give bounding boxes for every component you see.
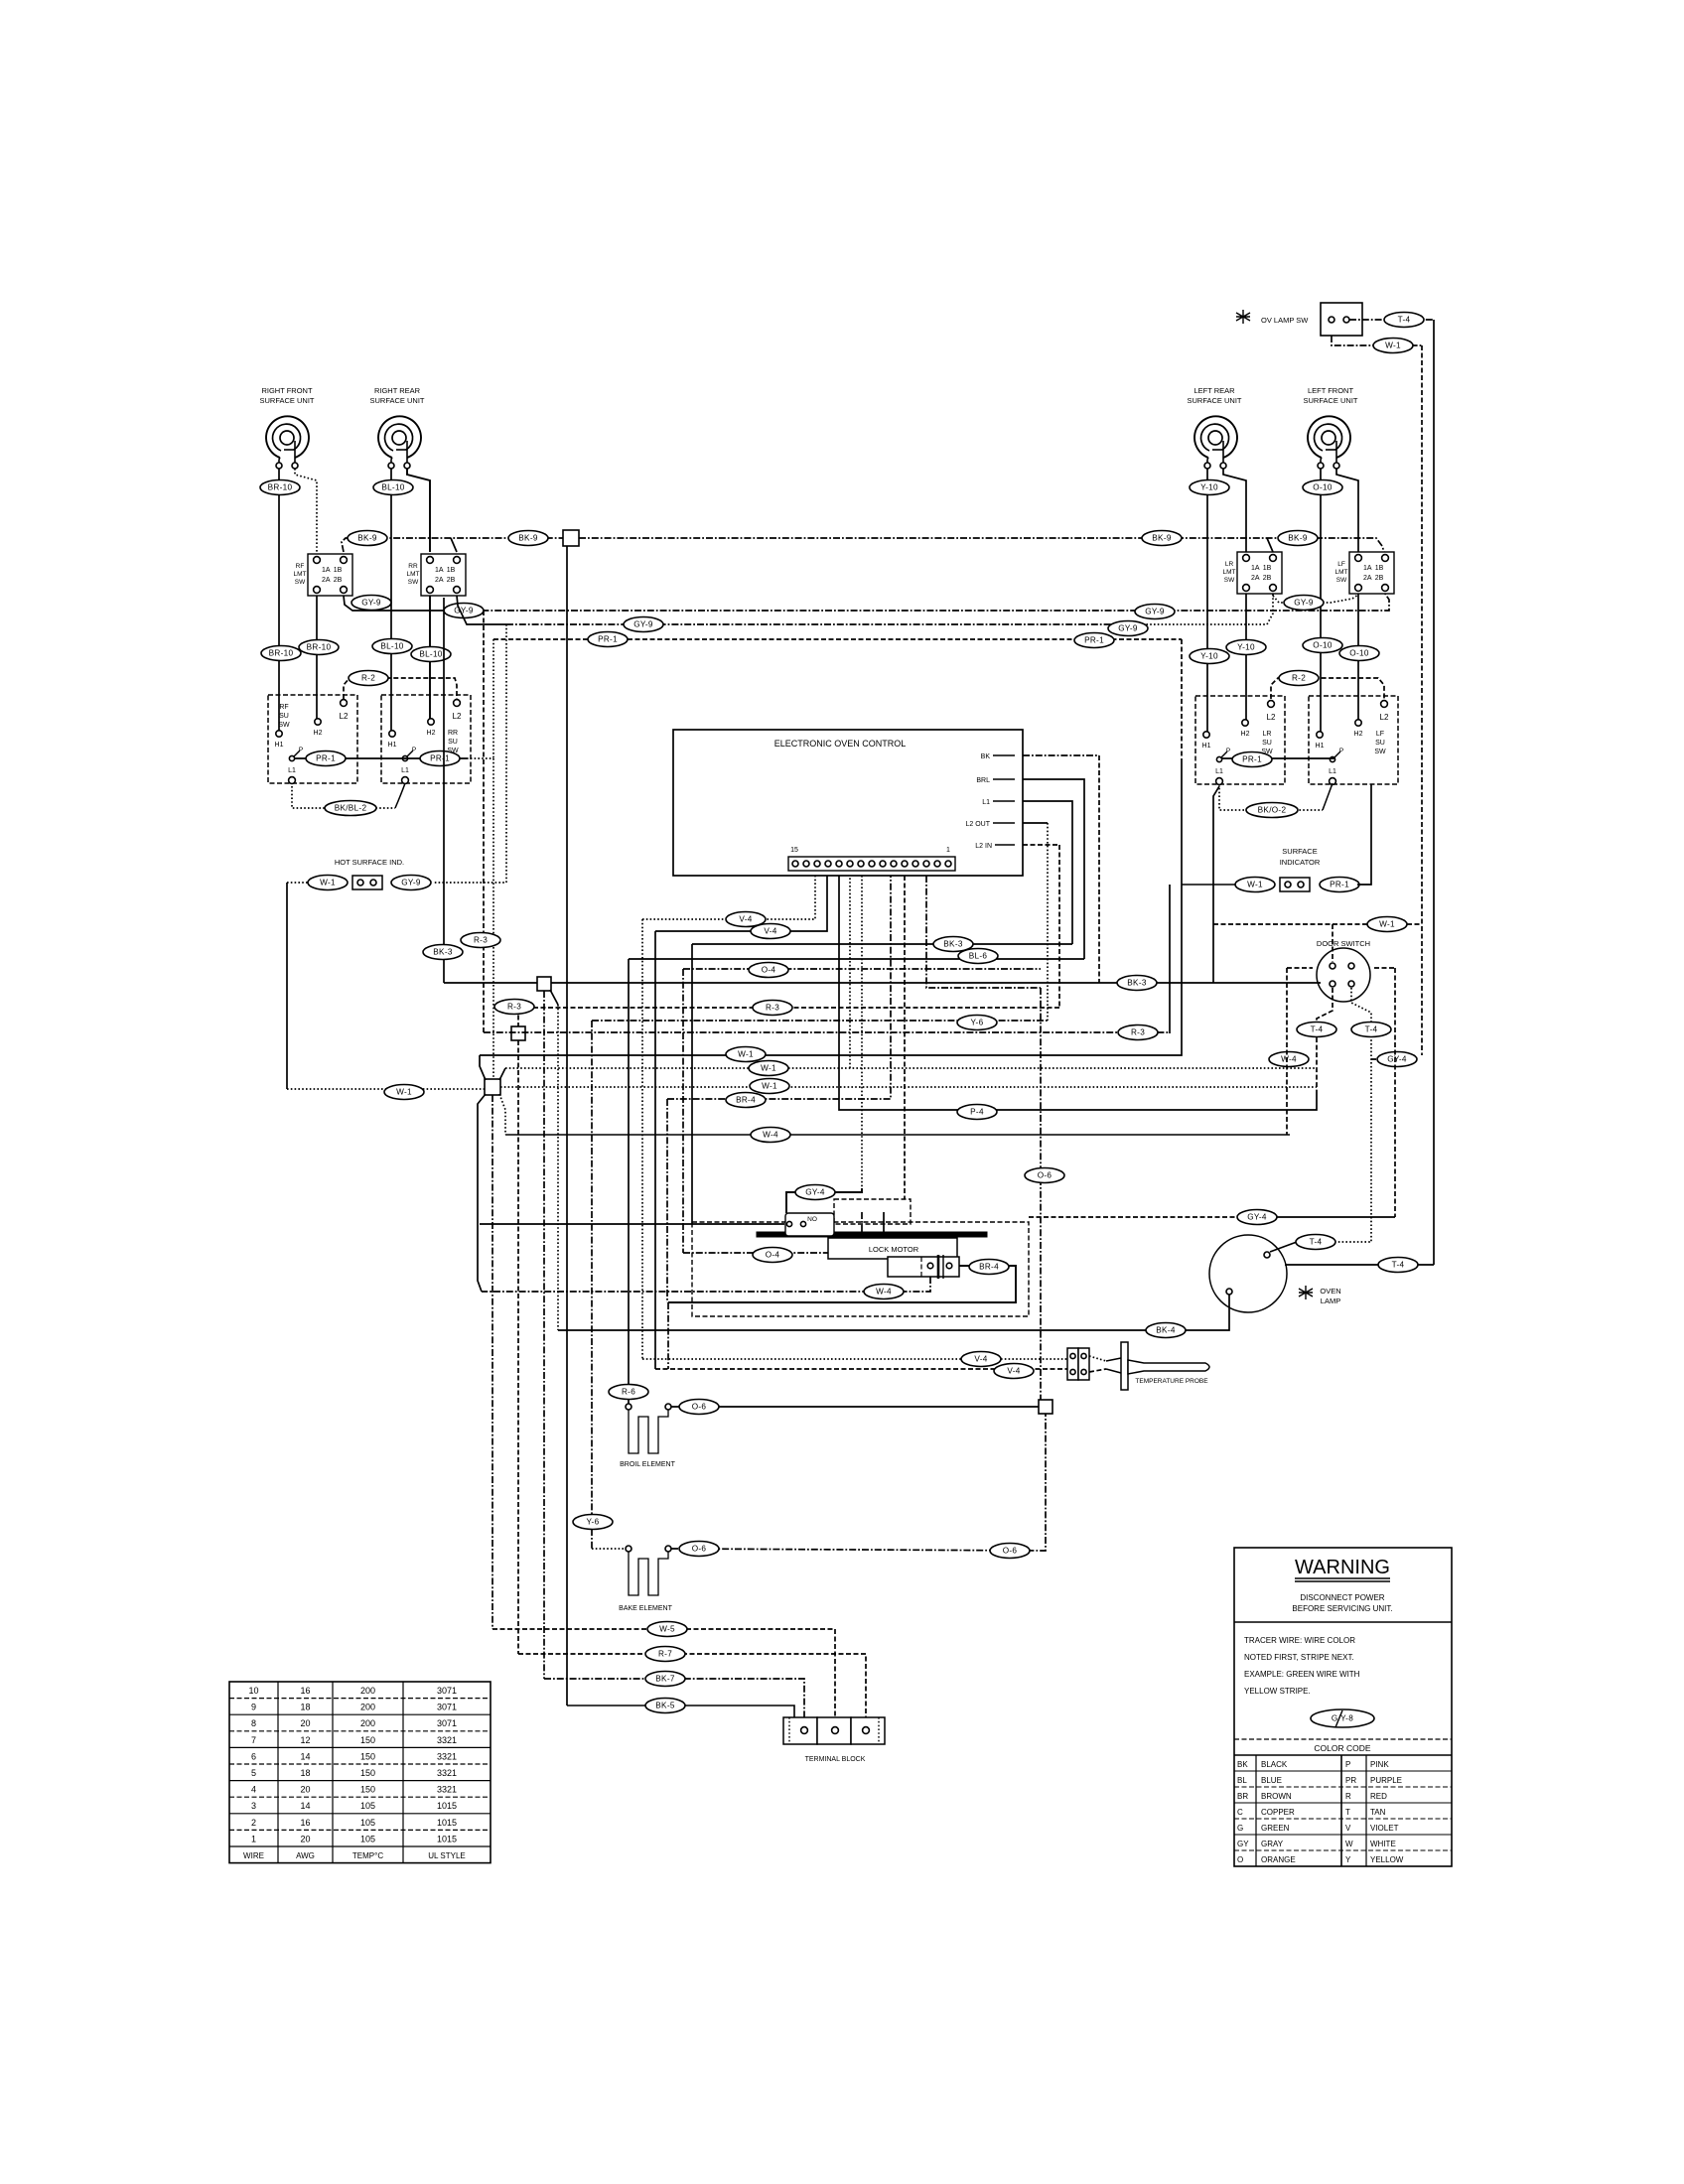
svg-text:O-10: O-10 [1349, 649, 1369, 658]
svg-text:YELLOW STRIPE.: YELLOW STRIPE. [1244, 1687, 1311, 1696]
label oval BK-3 (left) [423, 945, 463, 960]
wire R-3 run y=1015 [518, 1007, 1059, 1009]
svg-text:2B: 2B [334, 577, 343, 584]
svg-text:W-1: W-1 [762, 1082, 777, 1091]
wire T-4 oven lamp right [1285, 1264, 1434, 1266]
label oval W-1 (y1063) [726, 1047, 766, 1062]
svg-text:O-4: O-4 [762, 966, 776, 975]
svg-text:INDICATOR: INDICATOR [1280, 858, 1321, 867]
svg-text:SURFACE UNIT: SURFACE UNIT [1187, 396, 1241, 405]
wire gauge table [229, 1682, 491, 1863]
svg-text:V-4: V-4 [974, 1355, 987, 1364]
svg-text:G: G [1237, 1824, 1243, 1833]
svg-text:GY-9: GY-9 [1294, 599, 1314, 608]
svg-text:2B: 2B [1375, 575, 1384, 582]
wire GY-4 drop x=1405 [1374, 968, 1395, 1217]
wire BL-10 from RR unit left terminal to RR SU SW H1 [390, 469, 392, 733]
svg-text:RF: RF [296, 563, 305, 570]
svg-text:HOT SURFACE IND.: HOT SURFACE IND. [335, 858, 404, 867]
svg-text:O-10: O-10 [1313, 641, 1333, 650]
label oval GY-4 (door) [1377, 1052, 1417, 1067]
svg-text:WARNING: WARNING [1295, 1557, 1390, 1578]
svg-text:R-2: R-2 [1292, 674, 1306, 683]
svg-text:TAN: TAN [1370, 1808, 1386, 1817]
label oval W-5 [647, 1622, 687, 1637]
wire EOC pin10 drop [904, 876, 906, 1199]
svg-text:20: 20 [300, 1785, 310, 1795]
wire BR-10 RF LMT 2A to H2 [316, 596, 318, 722]
svg-text:150: 150 [360, 1751, 375, 1761]
wire vertical O-4 x=688 [682, 969, 684, 1253]
wire right vertical bus T-4 [1433, 320, 1435, 1265]
wire GY-9 bus upper [344, 594, 1389, 611]
svg-text:C: C [1237, 1808, 1243, 1817]
svg-text:H2: H2 [314, 730, 323, 737]
svg-text:PINK: PINK [1370, 1760, 1389, 1769]
svg-text:COLOR CODE: COLOR CODE [1314, 1743, 1370, 1753]
label oval GY-9 (between LR LF) [1284, 596, 1324, 611]
limit switch LF LMT SW [1335, 552, 1395, 594]
svg-text:1B: 1B [1375, 565, 1384, 572]
label oval O-10 (LF lower) [1303, 638, 1342, 653]
svg-text:3321: 3321 [437, 1785, 457, 1795]
wire vertical R x=522 top [517, 1008, 519, 1026]
svg-text:H1: H1 [275, 742, 284, 749]
svg-text:20: 20 [300, 1718, 310, 1728]
wire vertical Y-6 x=596 [591, 1021, 593, 1549]
svg-text:SW: SW [408, 579, 419, 586]
wire PR-1 bus [493, 639, 1182, 758]
wire W-1 run to junction J3 [287, 1088, 485, 1090]
label oval O-10 (LF 2A) [1339, 646, 1379, 661]
label oval PR-1 (LR) [1232, 752, 1272, 767]
svg-text:GRAY: GRAY [1261, 1840, 1284, 1848]
wire O-10 from LF unit left terminal to LF SU SW H1 [1320, 469, 1322, 735]
svg-text:1B: 1B [334, 567, 343, 574]
label oval BK-4 [1146, 1323, 1186, 1338]
svg-text:R-6: R-6 [622, 1388, 635, 1397]
label oval W-1 (y1076) [749, 1061, 788, 1076]
svg-text:O-6: O-6 [1003, 1547, 1018, 1556]
svg-text:10: 10 [248, 1686, 258, 1696]
svg-text:BK-9: BK-9 [1152, 534, 1172, 543]
svg-text:H2: H2 [427, 730, 436, 737]
svg-text:RIGHT REAR: RIGHT REAR [374, 386, 421, 395]
label oval BK-3 (mid) [933, 937, 973, 952]
wire V-4 run upper [642, 876, 815, 919]
wire O-6 broil run [671, 1406, 1040, 1408]
svg-text:L2: L2 [1267, 713, 1276, 722]
svg-text:15: 15 [790, 847, 798, 854]
svg-text:GY-9: GY-9 [633, 620, 653, 629]
svg-text:4: 4 [251, 1785, 256, 1795]
svg-text:105: 105 [360, 1801, 375, 1811]
svg-text:O: O [1237, 1855, 1243, 1864]
label oval BR-10 (RF lead) [260, 480, 300, 495]
svg-text:TERMINAL BLOCK: TERMINAL BLOCK [805, 1756, 866, 1763]
wire vertical BK-5 x=571 [566, 546, 568, 1706]
svg-text:W-1: W-1 [1385, 341, 1401, 350]
svg-text:GY: GY [1237, 1840, 1249, 1848]
svg-text:R-3: R-3 [1131, 1028, 1145, 1037]
wire W-4 from lock terminal [482, 1277, 930, 1292]
svg-text:2B: 2B [1263, 575, 1272, 582]
svg-text:14: 14 [300, 1751, 310, 1761]
svg-text:RED: RED [1370, 1792, 1387, 1801]
wire vertical x=497 mid [492, 758, 494, 1080]
svg-text:Y-6: Y-6 [971, 1019, 984, 1027]
svg-text:3071: 3071 [437, 1703, 457, 1712]
svg-text:R-2: R-2 [361, 674, 375, 683]
svg-text:L2: L2 [1380, 713, 1389, 722]
wire GY-4 door run [1371, 1058, 1415, 1060]
svg-text:BK-9: BK-9 [1288, 534, 1308, 543]
svg-text:LR: LR [1263, 731, 1272, 738]
junction box J1 [537, 977, 551, 991]
svg-text:VIOLET: VIOLET [1370, 1824, 1399, 1833]
label oval O-6 (riser) [1025, 1168, 1064, 1183]
svg-text:5: 5 [251, 1768, 256, 1778]
svg-text:L1: L1 [982, 799, 990, 806]
wire BL-10 RR LMT 2A to H2 [429, 596, 431, 719]
wire vertical V-4 x=647 [641, 919, 643, 1359]
lock motor bar [757, 1232, 987, 1237]
label oval R-6 [609, 1385, 648, 1400]
right rear surface unit heater coil [369, 386, 424, 469]
wire W-4 down from J3 [478, 1117, 482, 1292]
svg-text:BRL: BRL [976, 777, 990, 784]
svg-text:1015: 1015 [437, 1834, 457, 1843]
svg-text:SU: SU [1375, 740, 1385, 747]
wire from RF unit right terminal to RF LMT SW 1A [295, 469, 317, 552]
surface switch RR SU SW [381, 695, 471, 783]
svg-text:H2: H2 [1241, 731, 1250, 738]
wire PR-1 left drop [492, 639, 494, 758]
wire W-1 run y=1076 dashed [505, 876, 1317, 1068]
svg-text:PURPLE: PURPLE [1370, 1776, 1402, 1785]
svg-text:2A: 2A [1251, 575, 1260, 582]
wire O-6 riser x=1048 [1040, 988, 1042, 1400]
broil element [620, 1404, 675, 1468]
svg-text:W-1: W-1 [320, 879, 336, 887]
label oval O-6 (bake right) [990, 1544, 1030, 1559]
label oval R-3 (left) [461, 933, 500, 948]
label oval W-4 (y1143) [751, 1128, 790, 1143]
svg-text:1015: 1015 [437, 1818, 457, 1828]
label oval R-2 (left) [349, 671, 388, 686]
svg-text:2B: 2B [447, 577, 456, 584]
svg-text:NO: NO [807, 1216, 817, 1223]
wire R-2 RF-RR L2 link [344, 678, 457, 699]
surface indicator [1182, 784, 1371, 892]
svg-text:H2: H2 [1354, 731, 1363, 738]
svg-text:200: 200 [360, 1703, 375, 1712]
svg-text:BK-3: BK-3 [943, 940, 963, 949]
wire vertical V-4 x=660 [654, 931, 656, 1369]
label oval T-4 (door left) [1297, 1023, 1336, 1037]
wire P-4 run y=1118 [839, 876, 1317, 1110]
svg-text:18: 18 [300, 1768, 310, 1778]
svg-text:Y-6: Y-6 [587, 1518, 600, 1527]
wire PR-1 link to bus drop [467, 757, 493, 759]
oven lamp DS1 [1209, 1235, 1341, 1312]
svg-text:1B: 1B [1263, 565, 1272, 572]
svg-text:16: 16 [300, 1818, 310, 1828]
svg-text:3071: 3071 [437, 1718, 457, 1728]
svg-text:GY-9: GY-9 [401, 879, 421, 887]
wire BK/BL-2 RF-RR L1 link [292, 783, 405, 808]
wire Y-10 from LR unit left terminal to LR SU SW H1 [1206, 469, 1208, 735]
svg-text:L2 IN: L2 IN [975, 843, 992, 850]
svg-text:W-1: W-1 [1247, 881, 1263, 889]
svg-text:16: 16 [300, 1686, 310, 1696]
label oval BK-9 (right a) [1142, 531, 1182, 546]
svg-text:150: 150 [360, 1785, 375, 1795]
svg-text:ORANGE: ORANGE [1261, 1855, 1296, 1864]
wire W-1 run y=1095 dotted [500, 1086, 1317, 1088]
svg-text:LR: LR [1225, 561, 1234, 568]
lock motor cam dashed box [834, 1199, 911, 1224]
lock motor terminal box [888, 1255, 959, 1279]
wire Y-6 run y=1028 [592, 1020, 1048, 1022]
label oval BK-9 (left a) [348, 531, 387, 546]
label oval GY-9 (under RF LMT) [351, 596, 391, 611]
svg-text:P: P [299, 747, 303, 753]
svg-text:12: 12 [300, 1735, 310, 1745]
label oval R-3 (mid 1) [494, 1000, 534, 1015]
wire T-4 oven lamp top [1270, 1242, 1371, 1252]
svg-text:SURFACE: SURFACE [1282, 847, 1317, 856]
svg-text:W-4: W-4 [876, 1288, 892, 1297]
junction box J2 [511, 1026, 525, 1040]
svg-text:DISCONNECT POWER: DISCONNECT POWER [1300, 1593, 1384, 1602]
svg-text:LOCK MOTOR: LOCK MOTOR [869, 1245, 919, 1254]
wire BK-7 run [544, 1679, 804, 1727]
wire from LR unit right terminal to LR LMT SW 1A [1223, 469, 1246, 552]
temperature probe [1089, 1342, 1209, 1390]
svg-text:BROIL ELEMENT: BROIL ELEMENT [620, 1461, 675, 1468]
label oval BR-4 (mid) [726, 1093, 766, 1108]
svg-text:BK: BK [1237, 1760, 1248, 1769]
surface switch LR SU SW [1195, 696, 1285, 784]
junction box on BK-9 bus [563, 530, 579, 546]
lock motor switch NO [785, 1213, 834, 1236]
svg-text:BK-3: BK-3 [1127, 979, 1147, 988]
svg-text:GY-9: GY-9 [361, 599, 381, 608]
left rear surface unit heater coil [1187, 386, 1241, 469]
svg-text:RR: RR [408, 563, 418, 570]
label oval P-4 [957, 1105, 997, 1120]
svg-text:YELLOW: YELLOW [1370, 1855, 1404, 1864]
svg-text:150: 150 [360, 1768, 375, 1778]
svg-text:LMT: LMT [1223, 569, 1236, 576]
svg-text:9: 9 [251, 1703, 256, 1712]
svg-text:O-10: O-10 [1313, 483, 1333, 492]
svg-text:GY-9: GY-9 [1118, 624, 1138, 633]
svg-text:WIRE: WIRE [243, 1851, 264, 1860]
svg-text:2: 2 [251, 1818, 256, 1828]
svg-text:L1: L1 [1329, 768, 1336, 775]
lock motor enclosure dashed [692, 1222, 1029, 1316]
svg-text:LF: LF [1376, 731, 1384, 738]
label oval Y-6 (bake) [573, 1515, 613, 1530]
label oval BK/O-2 [1246, 803, 1298, 818]
svg-text:LMT: LMT [1335, 569, 1348, 576]
svg-text:GY-4: GY-4 [805, 1188, 825, 1197]
svg-text:3321: 3321 [437, 1735, 457, 1745]
svg-text:BK-3: BK-3 [433, 948, 453, 957]
warning and color code box [1234, 1548, 1452, 1866]
bake element [619, 1546, 672, 1612]
svg-text:BLUE: BLUE [1261, 1776, 1282, 1785]
svg-text:T: T [1345, 1808, 1350, 1817]
svg-text:BROWN: BROWN [1261, 1792, 1292, 1801]
svg-text:TEMP°C: TEMP°C [352, 1851, 383, 1860]
svg-text:105: 105 [360, 1834, 375, 1843]
label oval R-7 [645, 1647, 685, 1662]
wire door sw TL drop [1332, 924, 1333, 962]
svg-text:GY-4: GY-4 [1387, 1055, 1407, 1064]
label oval W-4 (door) [1269, 1052, 1309, 1067]
label oval T-4 (door right) [1351, 1023, 1391, 1037]
svg-text:RIGHT FRONT: RIGHT FRONT [261, 386, 313, 395]
svg-text:P: P [1226, 748, 1230, 754]
svg-text:BK-7: BK-7 [655, 1675, 675, 1684]
wire drop from PR-1 bus to surface indicator [1181, 758, 1183, 885]
wire vertical BK-7 x=548 [543, 991, 545, 1679]
wire J3 diagonals [478, 1055, 505, 1135]
wire W-4 run y=1143 [505, 1134, 1290, 1136]
hot surface indicator [287, 858, 431, 890]
svg-text:O-6: O-6 [692, 1545, 707, 1554]
svg-text:RR: RR [448, 730, 458, 737]
svg-text:PR-1: PR-1 [1242, 755, 1262, 764]
surface switch LF SU SW [1309, 696, 1398, 784]
wire vertical BK-3 x=447 [443, 598, 445, 983]
svg-text:SURFACE UNIT: SURFACE UNIT [369, 396, 424, 405]
svg-text:P: P [1345, 1760, 1350, 1769]
wire PR-1 LR-LF P link [1221, 757, 1335, 759]
label oval T-4 (lamp right) [1378, 1258, 1418, 1273]
wire W-4 drop x=1296 [1287, 968, 1313, 1135]
svg-text:LMT: LMT [407, 571, 420, 578]
svg-text:PR-1: PR-1 [430, 754, 450, 763]
svg-text:AWG: AWG [296, 1851, 315, 1860]
lock motor body [828, 1238, 957, 1259]
svg-text:BR: BR [1237, 1792, 1248, 1801]
wire BL-6 run [629, 958, 1084, 960]
svg-text:3321: 3321 [437, 1768, 457, 1778]
svg-text:Y-10: Y-10 [1200, 483, 1218, 492]
label oval Y-6 (mid) [957, 1016, 997, 1030]
wire BK-5 run [567, 1706, 794, 1718]
svg-text:BR-4: BR-4 [736, 1096, 756, 1105]
svg-text:PR-1: PR-1 [1084, 636, 1104, 645]
label oval O-10 (LF lead) [1303, 480, 1342, 495]
svg-text:BK: BK [981, 753, 991, 760]
svg-text:6: 6 [251, 1751, 256, 1761]
svg-text:BK/BL-2: BK/BL-2 [335, 804, 367, 813]
wire L1 net from EOC [1023, 801, 1072, 944]
svg-text:105: 105 [360, 1818, 375, 1828]
wire Y-10 LR LMT 2A to H2 [1245, 594, 1247, 721]
wire GY-9 drop to hot surface indicator [433, 624, 506, 883]
wire R-3 run y=1040 [484, 1031, 1170, 1033]
svg-text:OV LAMP SW: OV LAMP SW [1261, 316, 1309, 325]
wire vertical R-7 x=522 [517, 1040, 519, 1654]
wire L2 IN net from EOC [1023, 845, 1059, 1008]
svg-text:P: P [412, 747, 416, 753]
svg-text:BR-10: BR-10 [268, 483, 293, 492]
svg-text:SU: SU [1262, 740, 1272, 747]
label oval BK-9 (left b) [508, 531, 548, 546]
svg-text:GY-4: GY-4 [1247, 1213, 1267, 1222]
svg-text:LF: LF [1337, 561, 1345, 568]
wire BR-4 run y=1107 [667, 876, 891, 1099]
wire door sw BR to T-4 to oven lamp [1351, 988, 1371, 1242]
label oval R-3 (right) [1118, 1025, 1158, 1040]
svg-text:R-3: R-3 [507, 1003, 521, 1012]
svg-text:R-3: R-3 [766, 1004, 779, 1013]
label oval W-1 (ov lamp sw) [1373, 339, 1413, 353]
svg-text:BLACK: BLACK [1261, 1760, 1288, 1769]
limit switch RF LMT SW [294, 554, 353, 596]
wire door switch feed y=991 [1099, 982, 1321, 984]
svg-text:3071: 3071 [437, 1686, 457, 1696]
svg-text:L1: L1 [1215, 768, 1223, 775]
wire BK net from EOC to door switch line [1023, 755, 1099, 983]
wire V-4 probe lower [655, 1368, 1067, 1370]
label oval Y-10 (LR lower) [1190, 649, 1229, 664]
wire V-4 probe upper [642, 1358, 1067, 1360]
svg-text:W: W [1345, 1840, 1353, 1848]
svg-text:BK-9: BK-9 [357, 534, 377, 543]
wire GY-4 from EOC pin9 to lock motor switch [786, 876, 862, 1213]
label oval BL-10 (RR lower) [372, 639, 412, 654]
svg-text:L2: L2 [453, 712, 462, 721]
label oval GY-9 (right bus) [1135, 605, 1175, 619]
svg-text:1A: 1A [1363, 565, 1372, 572]
wire L1 drop to lock motor switch [480, 944, 784, 1224]
wire BK/O-2 LR-LF L1 link [1219, 783, 1333, 810]
label oval GY-9 (lower right) [1108, 621, 1148, 636]
svg-text:SW: SW [1374, 749, 1386, 755]
wire W-5 run [492, 1629, 835, 1727]
limit switch RR LMT SW [407, 554, 467, 596]
wire L2 OUT net from EOC [1023, 823, 1048, 1021]
surface switch RF SU SW [268, 695, 357, 783]
svg-text:SW: SW [295, 579, 306, 586]
svg-text:BK-4: BK-4 [1156, 1326, 1176, 1335]
svg-text:1A: 1A [435, 567, 444, 574]
wire BRL net from EOC to BL-6 run [1023, 779, 1084, 959]
svg-text:BR-4: BR-4 [979, 1263, 999, 1272]
oven lamp switch SW1 (OV LAMP SW) [1236, 303, 1362, 336]
svg-text:O-6: O-6 [692, 1403, 707, 1412]
svg-text:NOTED FIRST, STRIPE NEXT.: NOTED FIRST, STRIPE NEXT. [1244, 1653, 1354, 1662]
junction box broil O-6 [1039, 1400, 1052, 1414]
label oval T-4 (lamp upper) [1296, 1235, 1335, 1250]
label oval GY-9 (lower left) [624, 617, 663, 632]
label oval R-2 (right) [1279, 671, 1319, 686]
label oval GY-4 (lamp area) [1237, 1210, 1277, 1225]
wire lock cam follower b [883, 1212, 885, 1238]
svg-text:ELECTRONIC OVEN CONTROL: ELECTRONIC OVEN CONTROL [774, 739, 907, 749]
svg-text:150: 150 [360, 1735, 375, 1745]
svg-text:GY-9: GY-9 [454, 607, 474, 615]
wire PR-1 RF-RR P link [294, 757, 467, 759]
label oval BR-10 (RF lower) [261, 646, 301, 661]
